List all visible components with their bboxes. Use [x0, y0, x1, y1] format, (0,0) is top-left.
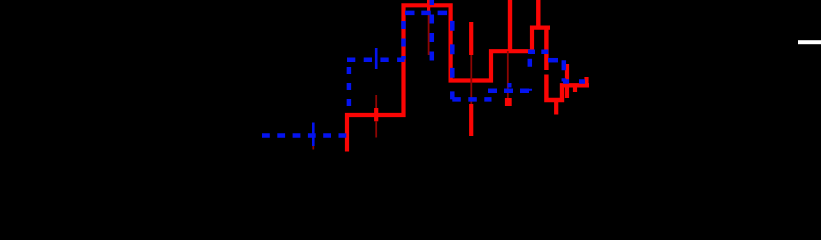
bottom level — [262, 133, 347, 138]
level y99.4 — [452, 97, 491, 102]
red solid histogram (bright red, thick) — [347, 5, 589, 151]
blue dashed histogram: per-segment dash phases — [262, 13, 589, 136]
level y59.8 — [347, 58, 405, 63]
bin ~567 — [565, 64, 569, 98]
level y51.8 — [527, 50, 550, 55]
level y90.7 — [488, 88, 530, 93]
level y61.5 — [547, 58, 564, 63]
bin ~575 small lower — [573, 87, 577, 92]
top level y13.4 — [404, 11, 453, 16]
blue error bars — [313, 0, 509, 146]
red error bars: bright thick arms — [376, 0, 586, 136]
drop at 452.3 — [450, 13, 455, 100]
bin ~428 top stub — [427, 0, 430, 11]
bin ~471 — [469, 22, 473, 136]
bin ~545 tall arm merged with step-down — [536, 0, 540, 29]
rise at 403.5 — [401, 13, 406, 60]
drop at 562.8 — [562, 60, 567, 81]
bin ~510 — [508, 0, 512, 51]
bin ~586 short upper — [584, 77, 588, 85]
rise at 529.8 — [528, 52, 533, 91]
red error bars: thin dark middles — [313, 11, 508, 150]
bin ~556 lower arm — [554, 102, 558, 115]
bin ~375 — [374, 108, 378, 121]
level y81.5 — [563, 79, 589, 84]
white bar top right — [798, 40, 821, 44]
rise at 348.9 (visible dashes only between 59.4 and 103) — [347, 59, 352, 107]
